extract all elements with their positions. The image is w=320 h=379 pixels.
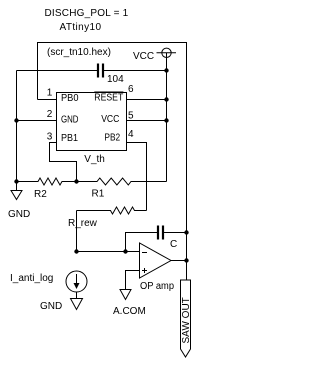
junction dot V_th node: [74, 179, 78, 183]
capacitor 104: [98, 64, 103, 78]
svg-text:RESET: RESET: [94, 93, 124, 104]
svg-text:R1: R1: [92, 189, 105, 200]
svg-text:GND: GND: [8, 209, 30, 220]
wire pin2 GND stub: [17, 120, 57, 122]
resistor R_rew: [77, 207, 147, 214]
op-amp U2 triangle: [140, 243, 172, 278]
resistor R2: [17, 178, 77, 185]
svg-text:SAW OUT: SAW OUT: [181, 297, 192, 343]
svg-text:GND: GND: [61, 114, 79, 125]
wire pin4 PB2 drop: [127, 143, 147, 211]
svg-text:R_rew: R_rew: [68, 218, 98, 229]
wire R_rew to integrator node: [76, 211, 78, 252]
wire pin6 RESET stub: [127, 99, 167, 101]
svg-text:2: 2: [47, 109, 53, 120]
ground A.COM symbol: [120, 290, 131, 300]
wire cap C left branch: [126, 233, 158, 252]
resistor R1: [77, 178, 167, 185]
svg-text:C: C: [170, 239, 177, 250]
port SAW OUT flag: [181, 280, 193, 357]
wire top feedback: PB0 riser, top run, right drop: [38, 43, 187, 280]
wire op-amp output: [171, 260, 187, 262]
ground GND1 symbol: [11, 191, 22, 200]
junction dot pin6: [164, 97, 168, 101]
wire cap104 right lead: [104, 70, 167, 72]
svg-text:PB0: PB0: [61, 93, 79, 104]
wire cap104 left lead: [17, 70, 98, 72]
wire VCC vertical rail: [166, 58, 168, 182]
svg-text:PB2: PB2: [104, 133, 120, 144]
svg-text:1: 1: [47, 88, 53, 99]
svg-text:PB1: PB1: [61, 133, 78, 144]
op-amp U1 IC box ATtiny10: [57, 93, 127, 151]
svg-text:6: 6: [128, 84, 134, 95]
svg-text:OP amp: OP amp: [140, 281, 174, 292]
capacitor C: [158, 226, 163, 240]
svg-text:V_th: V_th: [84, 154, 105, 165]
wire pin1 PB0 stub: [38, 99, 57, 101]
wire inverting input row: [77, 251, 140, 253]
svg-text:VCC: VCC: [133, 51, 154, 62]
wire cap C right lead: [164, 232, 187, 234]
wire non-inverting input to A.COM: [126, 271, 140, 290]
wire pin3 PB1 jog to V_th: [50, 143, 77, 182]
junction dot cap C branch: [123, 249, 127, 253]
svg-text:4: 4: [128, 129, 134, 140]
junction dot GND node: [14, 179, 18, 183]
op-amp minus sign: [142, 252, 147, 254]
junction dot output node: [184, 258, 188, 262]
op-amp plus sign: [142, 268, 147, 273]
svg-text:GND: GND: [40, 301, 62, 312]
junction dot cap C right: [184, 230, 188, 234]
current source I_anti_log: [66, 271, 87, 292]
wire pin5 VCC stub: [127, 120, 167, 122]
junction dot VCC-cap104: [164, 68, 168, 72]
svg-text:R2: R2: [34, 189, 47, 200]
svg-text:(scr_tn10.hex): (scr_tn10.hex): [47, 47, 111, 58]
junction dot pin2: [14, 118, 18, 122]
junction dot integrator node: [74, 249, 78, 253]
wire left vertical GND rail: [16, 71, 18, 191]
svg-text:104: 104: [107, 74, 124, 85]
svg-text:I_anti_log: I_anti_log: [10, 273, 53, 284]
svg-text:3: 3: [47, 131, 53, 142]
svg-text:A.COM: A.COM: [113, 306, 146, 317]
wire current source to GND: [76, 292, 78, 299]
ground GND2 symbol: [71, 299, 83, 310]
svg-text:ATtiny10: ATtiny10: [60, 22, 102, 33]
svg-text:VCC: VCC: [101, 114, 120, 125]
power VCC symbol: [157, 48, 177, 58]
svg-text:5: 5: [128, 110, 134, 121]
junction dot pin5: [164, 118, 168, 122]
svg-text:DISCHG_POL = 1: DISCHG_POL = 1: [45, 8, 129, 19]
